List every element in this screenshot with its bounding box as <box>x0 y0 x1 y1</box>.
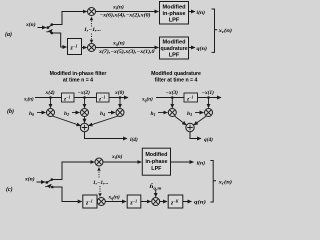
node x(4) <box>45 89 55 99</box>
svg-text:−x(3): −x(3) <box>166 89 179 96</box>
svg-text:xc(n): xc(n) <box>217 27 232 34</box>
multiplier M2b <box>81 109 89 117</box>
svg-text:h0: h0 <box>29 111 34 117</box>
wire dashed arrow up to M1c <box>97 167 100 178</box>
multiplier M2c <box>97 198 105 206</box>
multiplier M1q <box>168 109 176 117</box>
wire tap arrow q2 <box>208 98 210 108</box>
block modified in-phase LPF (a) <box>160 2 189 25</box>
coefficient h2 <box>64 111 80 117</box>
wire delay to M2a <box>82 47 87 49</box>
multiplier M2q <box>205 109 213 117</box>
delay z-1 (b-left 2) <box>97 93 110 102</box>
svg-text:xq(n): xq(n) <box>141 96 153 103</box>
wire input arrow <box>38 27 47 29</box>
coefficient h3 <box>187 111 204 117</box>
block modified quadrature LPF (a) <box>160 37 189 59</box>
svg-text:Modified: Modified <box>145 152 167 158</box>
svg-text:x(n): x(n) <box>24 176 35 183</box>
svg-text:h2: h2 <box>64 111 69 117</box>
svg-text:h1: h1 <box>151 111 156 117</box>
svg-text:(c): (c) <box>6 186 13 193</box>
svg-text:x(n): x(n) <box>25 21 36 28</box>
switch SW1 <box>46 23 53 34</box>
bracket output (c) <box>210 161 216 203</box>
svg-text:−x(1): −x(1) <box>202 89 215 96</box>
svg-text:i(4): i(4) <box>130 136 138 143</box>
svg-text:−x(2): −x(2) <box>78 89 91 96</box>
delay z-1 (b-left 1) <box>62 93 75 102</box>
svg-text:h3: h3 <box>187 111 192 117</box>
svg-text:(b): (b) <box>7 108 14 115</box>
coefficient h0 <box>29 111 46 117</box>
wire tap arrow 1 <box>50 98 52 108</box>
wire M2q to summer <box>194 116 207 125</box>
multiplier M1b <box>47 109 55 117</box>
svg-text:q(n): q(n) <box>197 45 208 52</box>
wire M3c to delay K <box>160 201 167 203</box>
wire LPF to q(n) <box>189 47 196 49</box>
wire LPF to i(n) <box>189 11 196 13</box>
node -x(2) <box>78 89 91 99</box>
svg-text:xc(n): xc(n) <box>217 179 232 186</box>
wire dashed arrow down to M2a <box>90 34 93 44</box>
multiplier M1c <box>95 158 103 166</box>
coefficient h4 <box>100 111 115 117</box>
svg-text:xq(n): xq(n) <box>108 194 120 201</box>
svg-text:xq(n): xq(n) <box>112 40 125 47</box>
svg-text:filter at time n = 4: filter at time n = 4 <box>155 78 198 84</box>
wire M1b to summer <box>53 116 81 126</box>
svg-text:xi(n): xi(n) <box>23 98 34 103</box>
svg-text:x(7),−x(5),x(3),−x(1),0: x(7),−x(5),x(3),−x(1),0 <box>98 50 155 55</box>
delay z-1 (a) <box>68 39 82 55</box>
delay z-K (c) <box>168 195 183 208</box>
multiplier M1a <box>88 8 96 16</box>
svg-text:Modified quadrature: Modified quadrature <box>151 71 201 77</box>
svg-text:i(n): i(n) <box>197 159 206 166</box>
wire summer to i(4) <box>85 132 128 139</box>
svg-text:(a): (a) <box>5 31 12 38</box>
wire main line (b-right) <box>156 97 221 99</box>
wire switch to top multiplier <box>52 12 87 25</box>
svg-text:−x(6),x(4),−x(2),x(0): −x(6),x(4),−x(2),x(0) <box>100 14 151 19</box>
svg-text:LPF: LPF <box>169 18 180 24</box>
svg-text:LPF: LPF <box>169 53 180 59</box>
wire M1q to summer <box>175 116 187 125</box>
svg-text:q(4): q(4) <box>204 136 213 143</box>
wire delay 2 to M3c <box>141 201 151 203</box>
delay z-1 (b-right) <box>184 93 198 102</box>
wire hq,m arrow down to M3c <box>155 190 157 197</box>
wire switch to delay <box>52 33 67 47</box>
wire M2c to delay 2 <box>105 201 126 203</box>
wire dashed arrow down to M2c <box>98 186 101 197</box>
wire delay K to q(n) <box>183 201 192 203</box>
switch SW2 <box>45 178 53 188</box>
svg-text:LPF: LPF <box>151 166 162 172</box>
node -x(3) <box>166 89 179 99</box>
svg-text:Modified: Modified <box>163 40 187 46</box>
svg-text:q(n): q(n) <box>194 198 206 205</box>
svg-text:x(4): x(4) <box>45 89 55 96</box>
svg-text:at time n = 4: at time n = 4 <box>63 78 93 84</box>
wire tap arrow q1 <box>171 98 173 108</box>
block modified in-phase LPF (c) <box>142 148 170 175</box>
svg-text:i(n): i(n) <box>197 9 206 16</box>
node -x(1) <box>202 89 215 99</box>
multiplier M2a <box>88 44 96 52</box>
summer S1q <box>186 123 194 131</box>
wire M1c to LPF (c) <box>103 161 141 163</box>
svg-text:x(0): x(0) <box>114 89 124 96</box>
svg-text:quadrature: quadrature <box>161 46 188 52</box>
svg-text:Modified: Modified <box>163 5 187 11</box>
wire M2b to summer <box>84 117 86 123</box>
wire summer to q(4) <box>190 132 201 139</box>
svg-text:Modified in-phase filter: Modified in-phase filter <box>50 71 107 77</box>
svg-text:in-phase: in-phase <box>145 159 167 165</box>
wire switch to bottom delay (c) <box>53 187 82 202</box>
svg-text:xi(n): xi(n) <box>111 153 123 160</box>
wire M3b to summer <box>89 116 119 126</box>
multiplier M3c <box>152 198 160 206</box>
wire switch to top multiplier (c) <box>52 162 94 180</box>
coefficient h1 <box>151 111 168 117</box>
delay z-1 (c bottom 1) <box>83 195 97 208</box>
svg-text:1,−1,...: 1,−1,... <box>84 27 101 33</box>
wire tap arrow 3 <box>119 98 121 108</box>
wire tap arrow 2 <box>84 98 86 108</box>
wire input arrow (c) <box>37 181 46 183</box>
multiplier M3b <box>116 109 124 117</box>
wire dashed arrow up to M1a <box>90 17 93 27</box>
svg-text:1,−1,...: 1,−1,... <box>93 180 109 186</box>
wire LPF to i(n) (c) <box>171 161 194 163</box>
delay z-1 (c bottom 2) <box>127 195 141 208</box>
svg-text:in-phase: in-phase <box>162 11 185 17</box>
summer S1b <box>80 123 88 131</box>
wire main line (b-left) <box>35 97 128 99</box>
svg-text:xi(n): xi(n) <box>112 4 124 11</box>
svg-text:h4: h4 <box>100 111 105 117</box>
wire M1a to in-phase LPF <box>96 11 159 13</box>
node x(0) <box>114 89 124 99</box>
bracket output (a) <box>212 9 218 52</box>
wire M2a to quadrature LPF <box>96 47 159 49</box>
